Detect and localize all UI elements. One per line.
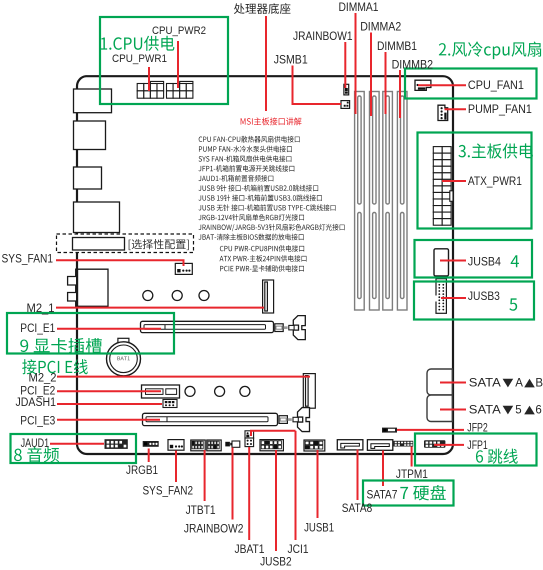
legend line 7 xyxy=(199,195,322,202)
svg-text:SYS_FAN1: SYS_FAN1 xyxy=(2,253,54,265)
connector JUSB1 (USB2 header) xyxy=(304,440,325,451)
legend line 3 xyxy=(199,155,292,162)
svg-text:JUSB2: JUSB2 xyxy=(260,556,292,568)
io block 1 xyxy=(74,89,112,113)
leader line DIMMA1 xyxy=(355,13,357,114)
leader line PUMP_FAN1 xyxy=(445,108,467,110)
callout box 1 CPU power xyxy=(100,17,228,104)
leader line SATA 5/6 xyxy=(440,409,466,411)
connector ATX_PWR1 (24-pin) xyxy=(433,147,451,226)
connector CPU_FAN1 xyxy=(415,80,431,90)
svg-text:PCI_E1: PCI_E1 xyxy=(20,323,55,335)
svg-text:CPU_PWR1: CPU_PWR1 xyxy=(112,53,167,65)
svg-text:JUSB3: JUSB3 xyxy=(468,291,500,303)
leader line CPU socket xyxy=(265,16,267,111)
svg-text:B: B xyxy=(535,378,543,390)
connector JUSB3 (USB3 19-pin header) xyxy=(435,279,447,314)
callout box 7 storage xyxy=(363,481,454,506)
SATA port SATA7 xyxy=(367,440,392,451)
mounting holes row 1 xyxy=(143,291,209,301)
connector CPU_PWR1 (8-pin) xyxy=(137,84,163,99)
leader line JCI1 over xyxy=(250,430,296,432)
svg-text:JBAT1: JBAT1 xyxy=(235,544,265,556)
io block 3 xyxy=(74,167,102,189)
connector JTPM1 xyxy=(393,441,413,447)
connector JRAINBOW1 xyxy=(344,84,349,95)
leader line CPU_PWR1 xyxy=(148,67,150,91)
svg-text:M2_1: M2_1 xyxy=(27,303,55,315)
svg-text:PCI_E3: PCI_E3 xyxy=(20,416,55,428)
heading 5 xyxy=(509,298,517,310)
leader line JFP1 xyxy=(434,444,464,446)
leader line ATX_PWR1 xyxy=(442,180,466,182)
heading 3 board power xyxy=(458,143,532,158)
connector JBAT1 xyxy=(245,438,254,447)
legend line 11 xyxy=(199,234,304,241)
connector JRGB1 xyxy=(143,441,159,447)
legend line 14 xyxy=(220,265,304,272)
leader line CPU_PWR2 xyxy=(177,41,179,88)
leader line PCI_E2 xyxy=(57,390,161,392)
leader line JRGB1 xyxy=(148,449,150,463)
connector JRAINBOW2 xyxy=(225,441,240,447)
heading 1 CPU power xyxy=(101,36,175,51)
svg-text:6: 6 xyxy=(535,405,541,417)
audio chip heatsink shape xyxy=(68,269,108,306)
svg-text:SATA: SATA xyxy=(469,378,501,390)
connector JAUD1 (front audio header) xyxy=(105,440,127,449)
svg-text:SATA: SATA xyxy=(469,405,501,417)
leader line JRAINBOW1 xyxy=(344,42,346,88)
leader line JUSB3 xyxy=(441,297,466,299)
connector JUSB2 (USB2 header) xyxy=(260,440,283,451)
leader line PCI_E3 xyxy=(57,419,160,421)
svg-text:SYS_FAN2: SYS_FAN2 xyxy=(143,485,194,497)
leader line JUSB2 xyxy=(275,450,277,551)
heading PCIe cable xyxy=(22,359,88,374)
leader line M2_2 xyxy=(57,376,310,378)
heading 2 CPU fan xyxy=(439,41,541,59)
svg-text:SATA7: SATA7 xyxy=(367,489,398,501)
SATA ports 5/6 block xyxy=(427,395,452,422)
leader line SYS_FAN2 xyxy=(175,451,177,483)
M.2 slot M2_1 standoff xyxy=(263,280,274,313)
io block 4 xyxy=(74,202,120,233)
leader line JCI1 stub xyxy=(250,431,252,436)
leader line M2_1 xyxy=(56,307,264,309)
leader line DIMMB2 xyxy=(399,70,401,118)
mounting holes row 2 xyxy=(185,386,250,396)
svg-text:JDASH1: JDASH1 xyxy=(16,397,57,409)
svg-text:JRAINBOW2: JRAINBOW2 xyxy=(184,524,244,536)
callout box 9 graphics slot xyxy=(7,313,174,354)
leader line CPU_FAN1 xyxy=(418,84,466,86)
CPU_PWR1 raised lip xyxy=(150,81,163,83)
M.2 slot M2_2 standoff xyxy=(303,374,315,409)
leader line SYS_FAN1 xyxy=(56,260,184,266)
DIMM slots DIMMA1 DIMMA2 DIMMB1 DIMMB2 xyxy=(355,92,407,311)
callout box 3 board power xyxy=(418,133,532,229)
leader line JUSB4 xyxy=(440,260,466,262)
svg-text:PCI_E2: PCI_E2 xyxy=(20,385,55,397)
svg-text:JRGB1: JRGB1 xyxy=(126,465,158,477)
svg-text:SATA8: SATA8 xyxy=(342,503,373,515)
legend line 4 xyxy=(199,165,295,172)
PCIe x1 slot PCI_E2 xyxy=(142,385,180,398)
callout box 5 JUSB3 xyxy=(414,282,534,320)
leader line DIMMA2 xyxy=(370,33,372,117)
connector PUMP_FAN1 xyxy=(438,105,448,120)
title CPU socket xyxy=(234,3,291,14)
leader line JFP2 xyxy=(397,429,464,431)
leader line JRAINBOW2 xyxy=(232,448,234,520)
battery BAT1 xyxy=(107,338,141,376)
svg-text:DIMMA2: DIMMA2 xyxy=(360,22,401,34)
leader line SATA7 xyxy=(382,451,384,487)
label SATA 5 6 xyxy=(469,405,542,417)
svg-text:CPU_FAN1: CPU_FAN1 xyxy=(468,80,524,92)
optional config note xyxy=(129,239,189,250)
svg-text:JFP2: JFP2 xyxy=(467,422,488,434)
svg-text:JTBT1: JTBT1 xyxy=(186,505,216,517)
legend line 12 xyxy=(220,245,304,252)
legend line 1 xyxy=(199,136,300,143)
svg-text:JUSB1: JUSB1 xyxy=(304,523,334,535)
heading 6 jumpers xyxy=(476,449,518,464)
connector JFP2 xyxy=(382,428,397,433)
connector JCI1 xyxy=(245,431,254,438)
connector CPU_PWR2 (8-pin) xyxy=(167,84,193,99)
callout box 4 JUSB4 xyxy=(415,240,533,278)
callout box 6 jumpers xyxy=(415,434,537,466)
label SATA A B xyxy=(469,378,543,390)
PCI_E1 latch xyxy=(275,316,306,340)
leader line JCI1 down xyxy=(295,431,297,540)
svg-text:M2_2: M2_2 xyxy=(29,372,57,384)
svg-text:JFP1: JFP1 xyxy=(467,440,488,452)
svg-text:A: A xyxy=(515,378,523,390)
io block 2 xyxy=(74,121,106,150)
svg-text:5: 5 xyxy=(515,405,521,417)
connector JFP1 xyxy=(424,440,445,448)
legend line 8 xyxy=(199,204,336,211)
legend line 6 xyxy=(199,185,319,192)
motherboard outline xyxy=(77,76,453,454)
SATA port SATA8 xyxy=(337,440,363,450)
svg-text:JTPM1: JTPM1 xyxy=(396,469,428,481)
optional-config dashed box xyxy=(57,234,194,253)
connector SYS_FAN2 xyxy=(168,440,184,451)
connector SYS_FAN1 xyxy=(175,263,192,274)
optional io block xyxy=(73,238,125,251)
svg-text:ATX_PWR1: ATX_PWR1 xyxy=(468,176,522,188)
CPU_PWR2 raised lip xyxy=(180,81,193,83)
legend line 5 xyxy=(199,175,274,182)
leader line PCI_E1 xyxy=(57,328,161,330)
heading 7 storage xyxy=(400,485,445,500)
svg-text:PUMP_FAN1: PUMP_FAN1 xyxy=(468,104,532,116)
svg-text:JRAINBOW1: JRAINBOW1 xyxy=(293,31,353,43)
leader line JTBT1 xyxy=(204,450,206,501)
PCIe x16 slot PCI_E3 xyxy=(143,413,278,425)
svg-text:CPU_PWR2: CPU_PWR2 xyxy=(152,25,206,37)
legend line 2 xyxy=(199,146,292,153)
heading 9 gpu slot xyxy=(20,338,102,353)
connector JTBT1 left half xyxy=(191,440,205,451)
battery label BAT1 xyxy=(117,356,129,360)
connector JSMB1 xyxy=(341,101,350,109)
svg-text:DIMMA1: DIMMA1 xyxy=(339,2,379,14)
leader line JBAT1 xyxy=(248,447,250,540)
callout box 8 audio xyxy=(11,434,137,463)
leader line JAUD1 xyxy=(50,443,104,445)
svg-text:DIMMB2: DIMMB2 xyxy=(392,60,434,72)
leader line JDASH1 xyxy=(57,403,162,405)
SATA ports A/B block xyxy=(427,369,452,395)
red title MSI xyxy=(241,117,302,125)
svg-text:JCI1: JCI1 xyxy=(288,544,309,556)
leader line DIMMB1 xyxy=(385,52,387,114)
connector JTBT1 right half xyxy=(207,440,221,451)
leader line SATA A/B xyxy=(440,382,466,384)
legend line 13 xyxy=(220,255,307,262)
legend line 9 xyxy=(199,214,304,221)
leader line JUSB1 xyxy=(317,450,319,518)
callout box 2 CPU fan xyxy=(405,69,537,99)
svg-text:DIMMB1: DIMMB1 xyxy=(377,41,417,53)
heading 4 xyxy=(511,255,519,267)
PCIe x16 slot PCI_E1 xyxy=(141,321,274,332)
PCI_E3 latch xyxy=(279,408,310,432)
leader line JSMB1 xyxy=(293,66,342,105)
connector JUSB4 (USB3 type-c header) xyxy=(434,249,449,276)
heading 8 audio xyxy=(14,447,59,462)
board edge through heatsink xyxy=(76,269,78,306)
leader line JTPM1 xyxy=(411,447,413,467)
svg-text:JSMB1: JSMB1 xyxy=(274,55,308,67)
svg-text:JUSB4: JUSB4 xyxy=(468,257,502,269)
connector JDASH1 xyxy=(163,400,177,408)
ATX_PWR1 latch tab xyxy=(450,191,453,202)
legend line 10 xyxy=(199,224,345,231)
leader line SATA8 xyxy=(357,450,359,501)
